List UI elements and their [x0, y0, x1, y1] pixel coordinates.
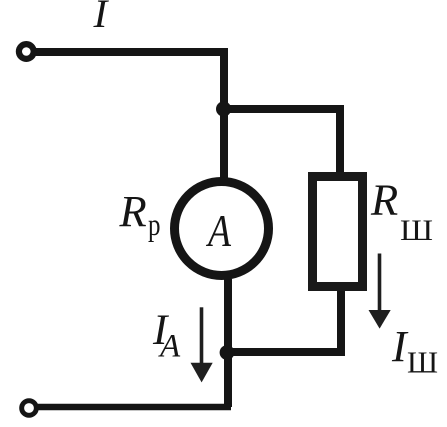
- svg-text:I: I: [92, 0, 109, 36]
- svg-text:A: A: [158, 329, 181, 365]
- svg-text:R: R: [119, 186, 147, 236]
- svg-text:Ш: Ш: [400, 214, 433, 247]
- svg-text:Ш: Ш: [407, 344, 438, 379]
- svg-text:A: A: [205, 206, 231, 256]
- svg-text:R: R: [370, 174, 398, 224]
- svg-text:p: p: [148, 206, 161, 242]
